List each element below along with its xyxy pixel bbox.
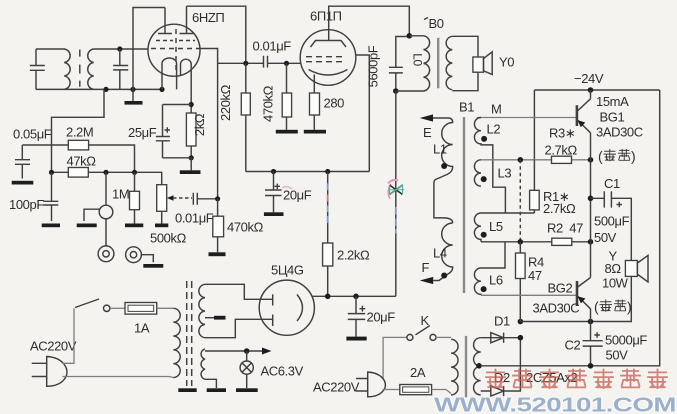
svg-text:R2 47: R2 47	[547, 220, 583, 235]
svg-text:50V: 50V	[594, 230, 617, 245]
wire K to transformer T3	[436, 336, 451, 338]
dot L5	[481, 232, 487, 238]
plus sign 25uF	[165, 127, 171, 132]
node D1 junction	[518, 335, 524, 341]
tube V2 plate	[311, 41, 347, 48]
watermark dashes on 2.2k riser	[327, 183, 329, 190]
capacitor C2	[583, 322, 603, 366]
node 20uF rail	[271, 169, 276, 174]
node input row 1M	[132, 170, 137, 175]
svg-text:20μF: 20μF	[367, 310, 396, 325]
svg-text:47: 47	[528, 268, 542, 283]
resistor 2.2k	[323, 243, 333, 296]
tube V2 cathode lead	[313, 75, 315, 94]
wire IF bottom to input row	[52, 89, 105, 172]
transistor BG2	[577, 278, 591, 309]
svg-text:2.7kΩ: 2.7kΩ	[545, 143, 578, 158]
capacitor C1	[591, 191, 632, 260]
svg-text:15mA: 15mA	[596, 94, 629, 109]
node input row mic	[103, 170, 108, 175]
ground under 100pF	[42, 224, 60, 228]
winding L1	[433, 118, 453, 223]
arrow AC6.3V	[262, 348, 272, 355]
tube V2 grid dashes	[306, 57, 346, 62]
IF transformer T1 secondary winding	[88, 49, 94, 89]
tube V3 plate top	[272, 294, 274, 305]
pickup input circle	[84, 172, 113, 221]
wire bottom rail of IF stage	[36, 88, 162, 90]
svg-text:L5: L5	[489, 219, 503, 234]
resistor R2	[552, 238, 572, 245]
wire center tap -24V return	[481, 90, 660, 366]
watermark red chinese text	[486, 370, 667, 389]
dot L4	[441, 273, 447, 279]
node 2k top	[189, 102, 194, 107]
wire plug to switch	[63, 308, 75, 363]
node 470k top	[284, 61, 289, 66]
wire IF secondary top to grid	[94, 48, 149, 50]
resistor 470k grid leak	[213, 199, 224, 253]
wire BG1 collector/emitter column	[590, 90, 592, 242]
svg-text:50V: 50V	[606, 348, 629, 363]
potentiometer 500k	[157, 185, 167, 224]
plus sign 20uF	[275, 184, 281, 189]
svg-text:5Ц4G: 5Ц4G	[271, 262, 304, 277]
power transformer T2 HV bottom lead to plate	[205, 319, 273, 337]
IF transformer T1 tank capacitor (left)	[30, 49, 45, 89]
svg-text:L1: L1	[433, 141, 447, 156]
tube V2 cathode arc	[309, 70, 348, 76]
tube V2 6P1P envelope	[300, 30, 356, 86]
dot L2	[481, 136, 487, 142]
fuse 1A	[125, 303, 157, 315]
svg-text:500μF: 500μF	[594, 214, 630, 229]
winding L4	[433, 223, 453, 281]
ground under 470k	[276, 130, 298, 134]
svg-text:470kΩ: 470kΩ	[261, 85, 276, 122]
svg-text:Y0: Y0	[499, 55, 514, 70]
svg-text:R3∗: R3∗	[549, 126, 575, 141]
capacitor 20uF main filter	[348, 296, 365, 336]
diode D2	[481, 338, 521, 396]
jack J1	[98, 219, 114, 262]
node R3 right	[588, 157, 594, 163]
svg-text:0.05μF: 0.05μF	[13, 127, 52, 142]
node cathode left	[159, 87, 164, 92]
HV center tap ground	[205, 316, 226, 320]
capacitor 25uF cathode bypass	[156, 105, 191, 158]
svg-text:25μF: 25μF	[128, 125, 157, 140]
ground under lamp	[236, 388, 258, 392]
svg-text:500kΩ: 500kΩ	[150, 231, 187, 246]
ground under 1M	[125, 224, 143, 228]
IF transformer T1 tuning capacitor (right)	[113, 49, 128, 89]
resistor 220k	[241, 63, 250, 171]
capacitor 0.05uF	[15, 145, 30, 179]
node rail junction	[518, 319, 524, 325]
resistor 280	[310, 93, 320, 130]
svg-text:C1: C1	[604, 176, 620, 191]
speaker Y	[625, 255, 648, 282]
svg-text:M: M	[491, 101, 501, 116]
winding L3	[474, 160, 481, 186]
wire grid right to 0.01uF column	[196, 49, 218, 199]
wire plug bottom to primary	[63, 377, 174, 378]
wire BG2 base row	[481, 294, 577, 296]
dot L6	[481, 286, 487, 292]
wire heater bottom to ground	[205, 379, 216, 388]
arrow BG2 emitter	[578, 296, 586, 303]
wire R2 row	[481, 241, 591, 243]
svg-text:C2: C2	[565, 338, 581, 353]
wire switch to fuse	[110, 307, 125, 309]
resistor R4	[516, 242, 526, 322]
wire fuse to primary	[157, 307, 174, 309]
tube V2 plate lead to top	[329, 6, 410, 40]
wire branch to coupling cap	[218, 62, 246, 64]
wire M base line	[477, 117, 577, 119]
ground under tube V1 left	[125, 89, 143, 104]
svg-text:BG2: BG2	[548, 281, 573, 296]
ground under core	[178, 388, 196, 392]
wire rectifier output	[312, 295, 396, 297]
speaker Y0	[473, 52, 492, 75]
node R3 left	[518, 157, 524, 163]
transformer T3 secondary	[474, 338, 481, 395]
ground heater	[207, 388, 226, 392]
svg-text:100pF: 100pF	[9, 197, 44, 212]
wiper dashed link	[173, 197, 192, 199]
resistor 2.2M	[68, 140, 88, 150]
transformer B1 core	[463, 117, 465, 293]
tube V1 left plate	[158, 8, 172, 34]
fuse 2A	[400, 385, 432, 395]
svg-text:2.7kΩ: 2.7kΩ	[543, 201, 576, 216]
capacitor 5600pF	[389, 37, 409, 92]
capacitor 0.01uF coupling	[246, 56, 301, 68]
ground jack J2	[143, 264, 163, 268]
svg-text:(: (	[594, 299, 599, 315]
node BG2 collector	[588, 319, 594, 325]
svg-text:K: K	[421, 313, 430, 328]
tube V1 center partition dashes	[151, 48, 197, 50]
wire speaker bottom rail	[520, 276, 631, 321]
bus -24V	[534, 89, 659, 91]
diode D1	[481, 333, 521, 343]
resistor 1M	[130, 172, 140, 223]
wire B+ feed riser	[395, 91, 397, 296]
node C1 tap	[588, 196, 594, 202]
node 5600pF bottom	[393, 88, 399, 94]
svg-text:2kΩ: 2kΩ	[192, 113, 207, 136]
svg-text:L4: L4	[433, 245, 447, 260]
node 220k top	[243, 61, 248, 66]
svg-text:6HZΠ: 6HZΠ	[192, 10, 224, 25]
tube V1 left cathode	[162, 58, 177, 89]
svg-text:8Ω: 8Ω	[605, 261, 622, 276]
svg-text:6Π1Π: 6Π1Π	[310, 9, 342, 24]
capacitor 20uF decoupling	[265, 172, 284, 213]
label 20uF watermark patch	[282, 186, 313, 203]
tube V1 grid dashes	[156, 40, 195, 42]
arrow F	[420, 277, 434, 284]
svg-text:10W: 10W	[602, 276, 629, 291]
plus sign C1	[617, 202, 623, 207]
tube V1 right plate	[180, 6, 194, 33]
svg-text:1M: 1M	[112, 186, 129, 201]
svg-text:L3: L3	[498, 166, 512, 181]
node lamp	[244, 348, 250, 354]
power transformer T2 HV secondary	[199, 284, 205, 337]
node 2.2k bottom	[325, 294, 331, 300]
node 2.2k rail	[325, 169, 330, 174]
ground under 470k lower	[209, 252, 226, 256]
node 2k bottom	[189, 155, 194, 160]
switch S1	[75, 299, 110, 311]
wire screen rail to rectifier	[327, 172, 329, 244]
output transformer B0 secondary	[446, 36, 452, 89]
switch K wire from riser	[383, 337, 407, 378]
svg-text:B1: B1	[459, 100, 474, 115]
wire input row 47k	[52, 172, 162, 184]
tube V1 6HZP envelope	[148, 24, 200, 76]
svg-text:D1: D1	[494, 314, 510, 329]
wire fuse to primary T3	[432, 390, 452, 394]
svg-text:5600pF: 5600pF	[366, 45, 381, 87]
svg-text:AC6.3V: AC6.3V	[261, 364, 304, 379]
capacitor 0.01uF to grid	[193, 193, 215, 205]
svg-text:3AD30C: 3AD30C	[533, 301, 580, 316]
svg-text:AC220V: AC220V	[313, 379, 360, 394]
dot L1	[441, 163, 447, 169]
svg-text:L6: L6	[489, 272, 503, 287]
svg-text:5000μF: 5000μF	[605, 332, 647, 347]
node input row left	[49, 170, 54, 175]
svg-text:AC220V: AC220V	[30, 339, 77, 354]
transistor BG1	[577, 99, 591, 133]
transformer T3 core	[465, 336, 467, 397]
svg-text:2A: 2A	[410, 365, 426, 380]
ground under 20uF2	[346, 337, 366, 341]
svg-text:−24V: −24V	[574, 71, 604, 86]
wire input row 2.2M	[22, 145, 134, 172]
node 20uF2	[353, 294, 359, 300]
svg-text:20μF: 20μF	[283, 188, 312, 203]
ground under 20uF	[264, 212, 284, 216]
node plate top	[407, 33, 413, 39]
svg-text:2.2M: 2.2M	[66, 125, 93, 140]
ground under 500k	[155, 224, 168, 228]
svg-text:F: F	[422, 260, 430, 275]
transformer T3 primary	[451, 339, 458, 395]
watermark logo bowtie	[388, 180, 405, 199]
wire -24V drop to R1/R3	[533, 90, 535, 160]
output transformer B0 primary L0	[396, 36, 430, 91]
node R2 left	[518, 239, 524, 245]
ground under 280	[304, 130, 326, 134]
IF transformer T1 core	[79, 50, 81, 87]
IF transformer T1 primary winding	[36, 49, 70, 89]
label green-dot BG2	[594, 299, 631, 315]
wire plug2 to fuse 2A	[383, 389, 400, 391]
AC220V plug 2	[356, 372, 385, 397]
lamp indicator	[240, 351, 253, 388]
node R2 right	[588, 239, 594, 245]
svg-text:): )	[631, 148, 635, 164]
svg-text:220kΩ: 220kΩ	[218, 84, 233, 121]
wire heater to AC6.3V	[205, 350, 262, 352]
winding L2	[474, 118, 505, 214]
dot L3	[481, 176, 487, 182]
wire speaker loop	[452, 36, 478, 90]
resistor R3	[552, 156, 572, 163]
svg-text:E: E	[423, 125, 432, 140]
jack J2	[126, 247, 154, 263]
wire R3 row	[481, 159, 591, 161]
svg-text:470kΩ: 470kΩ	[227, 219, 264, 234]
tube V2 screen wire right	[356, 55, 370, 172]
svg-text:WWW.520101.COM: WWW.520101.COM	[434, 394, 676, 414]
node center tap	[476, 363, 482, 369]
svg-text:B0: B0	[429, 16, 444, 31]
switch K	[407, 326, 436, 341]
svg-text:(: (	[598, 148, 603, 164]
svg-text:): )	[627, 299, 631, 315]
wire BG2 column	[590, 242, 592, 322]
power transformer T2 primary	[173, 308, 180, 377]
resistor 47k	[68, 168, 88, 178]
plus sign 20uF2	[360, 306, 366, 312]
AC220V plug 1	[32, 357, 67, 387]
ground mic	[77, 224, 97, 228]
power transformer T2 HV top lead to plate	[205, 284, 273, 299]
winding L6	[474, 242, 505, 295]
tube V3 5U4G envelope	[259, 280, 314, 335]
power transformer T2 heater winding	[201, 349, 205, 379]
svg-text:0.01μF: 0.01μF	[253, 39, 292, 54]
node -24V	[588, 87, 594, 93]
node grid column	[215, 196, 220, 201]
resistor 2k cathode	[186, 105, 196, 158]
arrow E	[420, 114, 433, 121]
wiper arrow 500k	[167, 195, 174, 201]
resistor R1	[530, 160, 540, 213]
dashed link R3 to R2	[519, 160, 521, 242]
svg-text:0.01μF: 0.01μF	[175, 211, 214, 226]
svg-text:2.2kΩ: 2.2kΩ	[337, 248, 370, 263]
svg-text:47kΩ: 47kΩ	[67, 153, 97, 168]
svg-text:1A: 1A	[134, 320, 150, 335]
node cap2 bottom	[103, 87, 108, 92]
node C2 bottom	[588, 363, 594, 369]
plus sign C2	[594, 332, 600, 338]
svg-text:BG1: BG1	[600, 110, 625, 125]
watermark dashes on B+ riser	[395, 207, 397, 215]
tube V1 right cathode	[181, 59, 192, 104]
arrow BG1 emitter	[578, 120, 586, 127]
tube V3 filament	[297, 295, 303, 322]
node IF top	[117, 46, 122, 51]
node ground tap	[130, 87, 135, 92]
svg-text:L2: L2	[487, 122, 501, 137]
capacitor 100pF	[43, 172, 58, 221]
svg-text:L0: L0	[411, 53, 425, 66]
output transformer B0 core	[437, 38, 439, 89]
resistor 470k grid2	[282, 63, 291, 130]
ground under 2k	[180, 158, 201, 174]
winding L5	[474, 213, 481, 242]
wire right plate to 220k node	[187, 6, 246, 63]
ground under 0.05uF	[12, 181, 34, 185]
wire left plate to ground column	[133, 8, 165, 90]
tube V3 plate bottom	[272, 315, 274, 327]
label B0	[424, 16, 444, 31]
label green-dot BG1	[598, 148, 635, 164]
svg-text:3AD30C: 3AD30C	[596, 124, 643, 139]
svg-text:280: 280	[324, 96, 345, 111]
wire L5 top row	[481, 212, 534, 214]
power transformer T2 core dashed	[187, 281, 192, 386]
wire B+ preamp rail	[246, 171, 369, 173]
